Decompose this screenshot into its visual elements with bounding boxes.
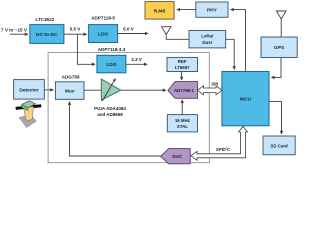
detector block xyxy=(14,80,45,100)
svg-text:LDO: LDO xyxy=(106,62,116,68)
ldo regulator ADP7118-3.3 xyxy=(97,47,126,73)
svg-text:Detector: Detector xyxy=(19,87,39,93)
dc-dc converter LTC3622 xyxy=(30,17,64,43)
wire PHY to RJ45 xyxy=(177,9,196,11)
board frame (analog front-end boundary) xyxy=(48,52,209,162)
antenna GPS xyxy=(277,11,287,37)
svg-text:SD Card: SD Card xyxy=(270,143,288,148)
dac block xyxy=(161,149,191,164)
svg-text:5.0 V: 5.0 V xyxy=(123,27,135,32)
wire 5.5V DC-to-DC to LDO1 xyxy=(64,33,87,35)
wire input 7V..15V to DC-to-DC xyxy=(10,33,28,35)
crystal 16MHz xyxy=(167,115,197,132)
wire LDO2 output 3.3V xyxy=(126,63,147,65)
bus SPI/I2C from MCU to DAC xyxy=(191,126,248,160)
svg-text:DAC: DAC xyxy=(173,154,184,159)
svg-text:REF: REF xyxy=(178,59,187,64)
svg-text:MCU: MCU xyxy=(240,97,251,103)
gps receiver xyxy=(261,37,297,58)
svg-text:AD7768-1: AD7768-1 xyxy=(174,88,195,93)
wire LDO1 output 5.0V xyxy=(118,33,149,35)
ethernet jack RJ45 xyxy=(145,2,174,20)
svg-text:GPS: GPS xyxy=(274,45,285,51)
svg-text:DC-to-DC: DC-to-DC xyxy=(36,32,58,38)
svg-text:LTC3622: LTC3622 xyxy=(35,17,54,22)
mux ADG758 xyxy=(55,75,84,100)
svg-text:Dust: Dust xyxy=(202,40,212,45)
wire PGIA to AD7768-1 xyxy=(121,89,166,91)
bus SPI between AD7768-1 and MCU xyxy=(198,86,222,95)
ethernet phy xyxy=(196,2,228,17)
ldo regulator ADP7118-5 xyxy=(89,15,118,42)
svg-text:ADP7118-3.3: ADP7118-3.3 xyxy=(98,47,126,52)
svg-text:PHY: PHY xyxy=(207,7,218,13)
wire LoRa/Dust to MCU xyxy=(226,39,235,69)
svg-text:ADP7118-5: ADP7118-5 xyxy=(91,15,115,20)
svg-text:PGIA ADA4084: PGIA ADA4084 xyxy=(94,106,126,111)
mcu block xyxy=(222,72,269,126)
wire branch 5.5V down to LDO2 xyxy=(77,34,95,64)
svg-text:7 V to ~15 V: 7 V to ~15 V xyxy=(1,27,28,32)
svg-text:LDO: LDO xyxy=(98,32,108,38)
pgia amplifier ADA4084 AD8668 xyxy=(94,79,126,117)
svg-text:XTAL: XTAL xyxy=(177,124,188,129)
svg-text:and AD8668: and AD8668 xyxy=(97,112,123,117)
svg-text:Mux: Mux xyxy=(65,88,75,94)
antenna LoRa xyxy=(162,27,190,40)
svg-text:ADG758: ADG758 xyxy=(62,75,80,80)
wire MCU to SD Card xyxy=(269,102,282,134)
svg-text:LT6657: LT6657 xyxy=(175,65,190,70)
svg-text:16 MHz: 16 MHz xyxy=(175,118,191,123)
wire XTAL to AD7768-1 xyxy=(181,100,183,115)
sd card xyxy=(263,136,295,155)
wire REF to AD7768-1 xyxy=(181,72,183,81)
svg-text:5.5 V: 5.5 V xyxy=(70,27,82,32)
svg-text:SPI: SPI xyxy=(211,81,218,86)
svg-text:RJ45: RJ45 xyxy=(154,8,166,14)
wire GPS to MCU xyxy=(271,58,281,78)
wire MCU to PHY xyxy=(231,10,246,72)
svg-text:LoRa/: LoRa/ xyxy=(201,34,214,39)
wire DAC feedback to Mux xyxy=(70,102,161,156)
reference LT6657 xyxy=(167,57,198,71)
adc AD7768-1 xyxy=(168,82,198,99)
svg-text:SPI/I²C: SPI/I²C xyxy=(216,147,231,152)
svg-text:3.3 V: 3.3 V xyxy=(131,57,143,62)
radio LoRa/Dust xyxy=(189,31,226,48)
source icon (crucible with handle) xyxy=(16,101,42,128)
wire Mux to PGIA xyxy=(84,89,101,91)
wire Detector to Mux xyxy=(44,89,53,91)
